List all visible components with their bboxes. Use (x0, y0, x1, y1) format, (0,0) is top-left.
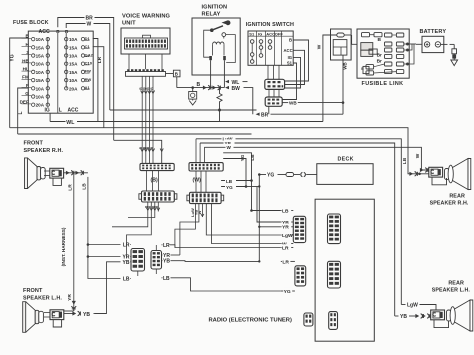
fusible link box (357, 29, 409, 78)
radio connector 3 (304, 313, 313, 326)
front speaker RH connector (50, 168, 64, 178)
svg-text:B: B (289, 38, 292, 43)
voice warning unit box (121, 28, 170, 54)
node ACC bottom (68, 108, 79, 114)
svg-text:IGNITION: IGNITION (202, 5, 228, 11)
svg-text:IG: IG (258, 31, 262, 36)
svg-text:G: G (25, 91, 29, 96)
svg-text:DEF: DEF (20, 99, 29, 104)
svg-text:WB: WB (343, 62, 348, 69)
svg-text:YG: YG (267, 173, 274, 179)
wire WB drop (343, 55, 348, 114)
fuse FM 15A (22, 75, 50, 83)
svg-text:W: W (227, 145, 232, 150)
wire fusible link to B (352, 35, 357, 44)
svg-text:FM: FM (22, 75, 29, 80)
wire bus LgW (196, 139, 401, 305)
battery ground link (451, 49, 458, 66)
svg-text:Br: Br (377, 52, 382, 58)
front speaker RH loop (53, 178, 61, 185)
wire bus to strip1 (114, 140, 162, 163)
wire LB front (82, 177, 121, 279)
wire voice warning leads (129, 54, 162, 69)
svg-text:S: S (361, 66, 364, 71)
wire bus YB rear (200, 143, 395, 316)
svg-text:LB: LB (82, 183, 88, 190)
svg-text:REAR: REAR (448, 280, 464, 286)
riser 1 (170, 245, 281, 248)
radio box (315, 199, 374, 341)
accessory relay internals (333, 33, 347, 55)
svg-text:REAR: REAR (449, 193, 465, 199)
front speaker RH label (24, 141, 64, 154)
svg-text:LgW: LgW (282, 233, 293, 239)
wire buses into strip W (196, 139, 204, 163)
label INST HARNESS (61, 227, 66, 266)
front speaker LH loop (53, 320, 61, 327)
condenser to ground (189, 88, 197, 105)
fuse F 10A (22, 83, 50, 91)
wire battery in (416, 43, 422, 45)
wire LgW lead (401, 303, 436, 310)
svg-text:W: W (415, 153, 421, 158)
ignition switch connector upper (265, 79, 285, 89)
deck label (338, 157, 354, 163)
fuse D1 10A (65, 36, 91, 42)
svg-text:W: W (197, 210, 202, 214)
svg-text:10A: 10A (36, 37, 45, 42)
wire ACC loop (285, 50, 305, 84)
fuse block inner bus mid (57, 33, 59, 114)
wire YG to deck (258, 172, 317, 178)
svg-text:YR: YR (282, 225, 289, 231)
wire connector link (269, 89, 279, 97)
label W rear (415, 153, 421, 158)
svg-text:10A: 10A (36, 86, 45, 91)
svg-text:YG: YG (240, 154, 245, 161)
wire YR row (87, 255, 121, 258)
fuse FW 15A (65, 69, 92, 75)
svg-text:(B): (B) (151, 178, 158, 184)
wire fuse top right 2 (93, 47, 104, 128)
svg-text:L: L (18, 111, 24, 114)
strip3 to conn right (155, 245, 157, 251)
front speaker LH (23, 302, 44, 333)
ignition relay box (192, 18, 240, 75)
battery terminals (424, 42, 440, 47)
strip4 wire W (212, 204, 281, 244)
rear speaker LH label (432, 280, 471, 293)
svg-text:YB: YB (123, 260, 130, 266)
wire bus WL (50, 119, 323, 126)
node L bottom (59, 108, 62, 114)
strip3 down wires (112, 202, 160, 258)
fuse A1 20A (65, 85, 91, 91)
wire YB rear lead (395, 314, 431, 321)
stem left top (137, 271, 139, 276)
fuse C10 15A (65, 61, 93, 67)
svg-text:LR: LR (282, 259, 289, 265)
svg-text:S1: S1 (249, 31, 255, 36)
svg-text:15A: 15A (36, 54, 45, 59)
svg-text:B: B (175, 72, 178, 77)
wire YR radio (258, 175, 281, 263)
svg-text:LgW: LgW (407, 303, 418, 309)
wire L left (18, 88, 29, 134)
node B top 1 (56, 29, 60, 34)
wire bus L mid (18, 133, 252, 135)
front speaker LH label (23, 288, 62, 301)
wire LR front (67, 173, 74, 311)
wire bus W stack (204, 147, 421, 167)
radio connector1 wires (281, 207, 294, 251)
fuse HL 10A (22, 67, 50, 75)
svg-text:WB: WB (289, 101, 297, 106)
wire speaker RH leads (44, 171, 50, 176)
connector strip 3 (139, 191, 177, 202)
labels bottom right connector (162, 243, 171, 282)
svg-text:15A: 15A (69, 70, 78, 75)
wire YB lead (64, 311, 107, 318)
svg-text:SPEAKER R.H.: SPEAKER R.H. (24, 148, 64, 154)
fuse block inner bus left (47, 37, 49, 106)
radio connector 1 (293, 216, 305, 242)
rear speaker LH loop (434, 320, 449, 328)
svg-text:L: L (59, 108, 62, 114)
wire B loop (285, 40, 309, 81)
fuse H 15A (22, 42, 50, 50)
connector pair B line (203, 85, 221, 90)
svg-text:BR: BR (261, 112, 269, 118)
svg-text:W: W (87, 22, 92, 28)
fusible links (361, 33, 404, 75)
harness connector left (131, 249, 145, 272)
svg-text:(W): (W) (193, 178, 202, 184)
strip4 down wires (175, 204, 204, 255)
label (B) (151, 178, 158, 184)
svg-text:LB: LB (282, 208, 289, 214)
svg-text:IG: IG (45, 108, 50, 114)
relay output left (210, 75, 212, 88)
label (W) (193, 178, 202, 184)
wire YR lead (64, 301, 76, 311)
svg-text:LB: LB (402, 157, 408, 164)
wire fuse top right 1 (93, 39, 98, 122)
wire BW out (225, 86, 253, 114)
wire YB row (95, 262, 121, 314)
svg-text:FRONT: FRONT (24, 141, 44, 147)
svg-text:ACC: ACC (68, 108, 79, 114)
svg-text:3: 3 (26, 50, 29, 55)
svg-text:BATTERY: BATTERY (420, 29, 447, 35)
ignition switch contacts (248, 31, 293, 65)
wire LR lead (64, 171, 88, 176)
riser 2 (171, 254, 180, 256)
radio block 1 (328, 214, 341, 244)
fusible link label (362, 81, 404, 87)
fuse GA2 10A (65, 52, 94, 58)
wire W feed (316, 35, 351, 122)
svg-text:HB: HB (22, 58, 29, 63)
label LB h (225, 178, 236, 184)
svg-text:Br: Br (377, 59, 382, 65)
svg-text:ACC: ACC (39, 29, 50, 35)
svg-text:20A: 20A (36, 103, 45, 108)
svg-text:10A: 10A (36, 95, 45, 100)
connector strip 4 (187, 192, 224, 203)
svg-text:YG: YG (226, 185, 233, 190)
svg-text:15A: 15A (36, 45, 45, 50)
fuse HB 10A (22, 58, 50, 66)
radio block 3 (329, 312, 338, 330)
rear speaker RH connector (429, 167, 443, 177)
node B (191, 82, 200, 89)
label LB rear (402, 157, 408, 164)
svg-text:YR: YR (67, 294, 73, 301)
svg-text:LB: LB (226, 179, 233, 184)
front speaker LH connector (50, 310, 64, 320)
wire bus B-BR (110, 109, 257, 112)
voice warning B output (166, 70, 181, 87)
strip4 wire LgW (206, 204, 280, 235)
svg-text:IG: IG (288, 55, 292, 60)
svg-text:SPEAKER L.H.: SPEAKER L.H. (432, 288, 471, 294)
accessory relay box (331, 29, 352, 60)
label YG h (225, 184, 236, 190)
wire YB radio (257, 187, 281, 223)
fuse block box (28, 31, 93, 113)
wire LB radio (250, 181, 281, 212)
deck box (317, 164, 373, 185)
svg-text:10A: 10A (69, 78, 78, 83)
wire LB feeder (221, 153, 253, 182)
voice warning connector (125, 35, 168, 49)
svg-text:OFF: OFF (275, 31, 284, 36)
wire voice warning to connector (141, 76, 164, 163)
battery box (422, 36, 444, 52)
svg-text:IGNITION SWITCH: IGNITION SWITCH (246, 22, 294, 28)
fuse block label (13, 20, 49, 26)
fuse G 10A (22, 91, 50, 99)
fuse B 10A (22, 34, 50, 42)
svg-text:15A: 15A (36, 78, 45, 83)
svg-text:S1: S1 (287, 60, 293, 65)
svg-text:W: W (316, 44, 322, 49)
svg-text:RADIO (ELECTRONIC TUNER): RADIO (ELECTRONIC TUNER) (209, 318, 292, 324)
svg-text:20A: 20A (69, 86, 78, 91)
svg-text:F: F (26, 83, 29, 88)
wire IG down (49, 113, 51, 121)
voice warning unit label (122, 14, 171, 27)
labels bottom left connector (123, 243, 131, 283)
wire labels small (139, 87, 154, 150)
svg-text:UNIT: UNIT (122, 21, 136, 27)
svg-text:DECK: DECK (338, 157, 354, 163)
harness connector right (151, 251, 162, 270)
svg-text:FUSIBLE LINK: FUSIBLE LINK (362, 81, 404, 87)
wire LR2 radio (246, 186, 259, 188)
wire switch to connector (268, 65, 279, 79)
ignition relay internals (204, 20, 236, 75)
wire B line (177, 87, 225, 89)
connector strip W (189, 163, 223, 171)
svg-text:HL: HL (23, 67, 29, 72)
svg-text:ACC: ACC (284, 48, 293, 53)
front speaker RH (25, 158, 46, 189)
svg-text:FUSE BLOCK: FUSE BLOCK (13, 20, 49, 26)
wire speaker LH leads (44, 313, 50, 318)
rear speaker RH label (430, 193, 469, 206)
svg-text:LR: LR (67, 184, 73, 191)
svg-text:VOICE WARNING: VOICE WARNING (122, 14, 171, 20)
svg-text:10A: 10A (69, 54, 78, 59)
wire BR top (58, 16, 114, 141)
fuse link relay (217, 88, 222, 122)
label LgW bus (222, 135, 236, 142)
voice warning harness connector (126, 69, 166, 76)
svg-text:YB: YB (83, 312, 90, 318)
wire WL out (225, 80, 248, 86)
ignition switch connector lower (265, 97, 282, 106)
svg-text:10A: 10A (69, 37, 78, 42)
ignition switch box (248, 31, 293, 65)
stem right (155, 269, 157, 274)
svg-text:B: B (197, 82, 201, 88)
connector strip B (140, 163, 174, 170)
wire battery out (441, 44, 455, 48)
svg-text:LR: LR (97, 56, 102, 63)
fusible link outputs (404, 43, 416, 66)
svg-text:YG: YG (284, 289, 291, 295)
svg-text:YB: YB (400, 314, 407, 320)
rear speaker RH loop (432, 177, 447, 185)
relay output right (223, 75, 225, 88)
node ACC top (39, 29, 50, 35)
svg-text:LR: LR (163, 243, 170, 249)
label YB bus (224, 139, 235, 146)
riser 4 (171, 278, 281, 291)
svg-text:BW: BW (232, 86, 241, 92)
svg-text:15A: 15A (69, 62, 78, 67)
wire WB (282, 101, 344, 106)
radio label (209, 318, 292, 324)
ignition relay label (202, 5, 228, 18)
node B top 2 (65, 29, 69, 34)
svg-text:ACC: ACC (266, 31, 275, 36)
rear speaker LH connector (431, 310, 445, 320)
wire S1 loop (282, 63, 296, 100)
radio connector 2 (295, 266, 306, 286)
svg-text:10A: 10A (36, 62, 45, 67)
riser 3 (171, 260, 260, 263)
svg-text:SPEAKER R.H.: SPEAKER R.H. (430, 201, 469, 207)
battery label (420, 29, 447, 35)
rear speaker RH (445, 159, 471, 190)
svg-text:15A: 15A (69, 45, 78, 50)
fuse 3 15A (22, 50, 50, 58)
svg-text:RELAY: RELAY (202, 12, 221, 18)
wire YG feeder (221, 159, 247, 188)
radio block 2 (328, 261, 341, 288)
svg-text:YB: YB (163, 259, 170, 265)
fuse block inner bus right (65, 33, 67, 89)
wire YG left (10, 38, 29, 128)
rear speaker LH (447, 300, 473, 331)
svg-text:YG: YG (10, 54, 16, 61)
fuse RW 10A (65, 77, 92, 83)
wire strip2 to strip4 (196, 171, 206, 192)
wire IG loop (285, 57, 301, 88)
wire W top (66, 22, 110, 110)
node IG bottom (45, 108, 50, 114)
svg-text:B: B (378, 37, 382, 43)
label YG vert (240, 154, 245, 161)
svg-text:WL: WL (66, 120, 75, 126)
label LB vert (250, 154, 255, 161)
wire W rear lead (420, 167, 429, 172)
fuse DEF 20A (20, 99, 50, 107)
wire bus W rear (10, 128, 408, 171)
radio connector2 wires (281, 258, 295, 295)
svg-text:LB: LB (123, 277, 130, 283)
svg-text:FRONT: FRONT (23, 288, 43, 294)
svg-text:SPEAKER L.H.: SPEAKER L.H. (23, 295, 62, 301)
wire LB rear lead (408, 171, 429, 176)
svg-text:(INST. HARNESS): (INST. HARNESS) (61, 227, 66, 266)
svg-text:LB: LB (250, 154, 255, 161)
svg-text:10A: 10A (36, 70, 45, 75)
wire strip1 to strip3 (147, 171, 159, 191)
fuse C1 15A (65, 44, 91, 50)
svg-text:LB: LB (163, 276, 170, 282)
svg-text:LR: LR (282, 245, 289, 251)
ignition switch label (246, 22, 294, 28)
wire BR (256, 106, 343, 118)
label W bus (226, 144, 234, 150)
